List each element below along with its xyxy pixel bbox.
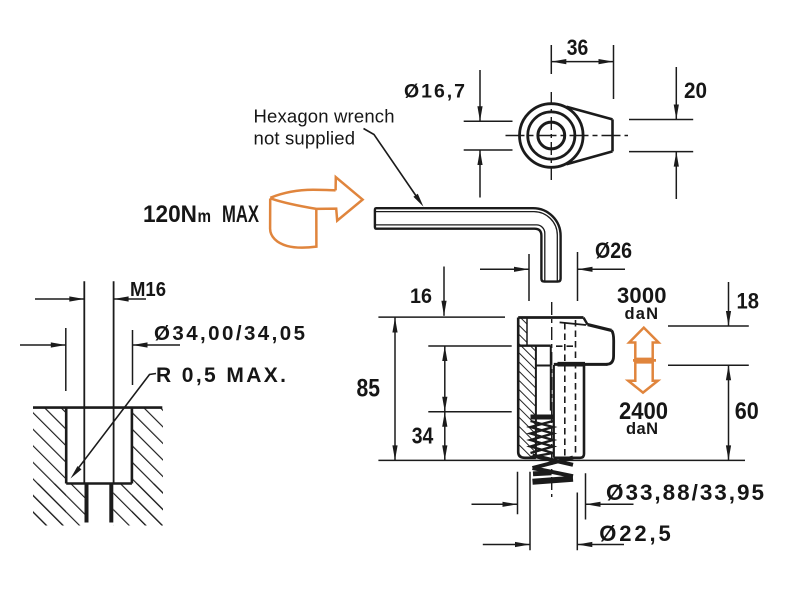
arrow Ø34 left [133, 342, 148, 347]
pocket right wall [550, 346, 552, 411]
dim Ø16.7 extensions [464, 121, 513, 150]
svg-text:M16: M16 [130, 278, 166, 301]
flange top edge [518, 316, 583, 319]
svg-text:Ø26: Ø26 [595, 238, 632, 263]
svg-text:MAX: MAX [222, 201, 259, 228]
svg-text:Ø33,88/33,95: Ø33,88/33,95 [606, 480, 764, 505]
bottom datum line [378, 459, 745, 461]
thread line right below floor [109, 485, 113, 523]
svg-text:m: m [198, 206, 212, 226]
rod right edge with corner [554, 365, 584, 458]
dim 85 line [394, 318, 396, 461]
dim 20 extensions [629, 120, 693, 152]
dim Ø16.7 line [479, 70, 481, 198]
svg-text:85: 85 [357, 375, 381, 403]
cam vertical centerline [550, 92, 552, 180]
force connector bar [633, 359, 656, 362]
spring top coil band [531, 415, 554, 420]
hatch flange band [518, 318, 527, 346]
arrow 60 down [726, 445, 731, 460]
arrow chain up at 346 [442, 346, 447, 361]
svg-text:daN: daN [626, 420, 658, 438]
arrow Ø16.7 up [477, 150, 482, 165]
arrow 34 up at 411.7 [442, 412, 447, 427]
dim Ø34 lines [20, 344, 180, 346]
lower spring coil band partial [533, 473, 552, 474]
hatch below counterbore floor left of hole [33, 484, 85, 526]
arm bottom edge [554, 363, 608, 366]
dim Ø26 extensions [529, 252, 578, 301]
cam horizontal centerline [506, 135, 629, 137]
hatch below counterbore floor right of hole [113, 484, 163, 526]
table top surface line [33, 406, 162, 409]
cam tail bottom edge [567, 151, 613, 164]
arrow R0.5 leader [71, 466, 82, 478]
arrow Ø22.5 left [577, 542, 592, 547]
dim Ø26 line [480, 268, 625, 270]
spring top extension line [428, 411, 511, 413]
body vertical centerline [551, 302, 553, 497]
svg-text:not supplied: not supplied [254, 128, 356, 149]
hidden bore dashed right [575, 320, 577, 456]
dim Ø22.5 line [483, 544, 624, 546]
M16 hole left line [83, 281, 85, 483]
force down arrow 2400 daN [628, 362, 658, 392]
arrow Ø33.88 right [503, 502, 518, 507]
wrench inner line lower [376, 225, 545, 281]
arrow 16 down [441, 301, 446, 316]
svg-text:36: 36 [567, 35, 589, 60]
svg-text:R 0,5 MAX.: R 0,5 MAX. [156, 364, 286, 387]
arrow 36 left [551, 59, 566, 64]
arrow chain down at 411.7 [442, 397, 447, 412]
svg-text:daN: daN [625, 305, 659, 323]
leader R0.5 [76, 374, 157, 472]
arrow Ø26 left [578, 267, 593, 272]
arm right edge with rounded corner [607, 330, 614, 364]
force up arrow 3000 daN [629, 328, 658, 359]
top surface extension line [378, 316, 505, 318]
svg-text:18: 18 [737, 289, 760, 314]
dim 36 line [551, 61, 613, 63]
svg-text:34: 34 [412, 422, 434, 448]
lower spring zigzag a [533, 456, 574, 465]
torque rotation arrow head and inner rim [270, 177, 362, 220]
upper spring zigzag a [531, 421, 554, 457]
rod left edge [553, 365, 555, 458]
wrench outer outline [375, 208, 561, 281]
arm notch line [560, 322, 586, 325]
arrow 34 down at 460.4 [442, 445, 447, 460]
dim Ø33.88 line [472, 503, 634, 505]
wrench inner line upper [376, 212, 558, 281]
hatch wall band [518, 346, 536, 458]
hidden line horizontal [556, 345, 576, 347]
arrow 85 down [392, 445, 397, 460]
arrow Ø26 right [514, 267, 529, 272]
arrow 20 up [674, 152, 679, 167]
dim M16 arrows lines [35, 298, 146, 300]
torque rotation arrow outer rim arc [270, 190, 335, 198]
cam tail right edge [611, 119, 614, 151]
arm bottom thick band [558, 362, 586, 367]
dim 16 line [443, 267, 445, 316]
M16 hole right line [113, 281, 115, 483]
arrow M16 left [114, 296, 129, 301]
flange bottom extension line [428, 345, 511, 347]
svg-text:Ø22,5: Ø22,5 [599, 521, 671, 546]
arrow Ø22.5 right [515, 542, 530, 547]
flange bottom edge [518, 345, 551, 347]
dim 36 right extension [613, 45, 615, 99]
torque rotation arrow band [270, 199, 316, 248]
arrow Ø33.88 left [586, 502, 601, 507]
lower spring zigzag b [533, 458, 574, 469]
flange inner wall line [526, 318, 528, 346]
hatch block left of counterbore [33, 408, 66, 526]
svg-text:Hexagon wrench: Hexagon wrench [254, 105, 395, 126]
svg-text:Ø16,7: Ø16,7 [404, 81, 465, 103]
cam tail top edge [567, 107, 613, 120]
lower spring zigzag c [533, 468, 574, 476]
svg-text:20: 20 [684, 78, 707, 103]
inner circle Ø16.7 bore [538, 122, 565, 149]
outer circle [520, 104, 584, 168]
arrow 60 up [726, 365, 731, 380]
arrow M16 right [69, 296, 84, 301]
arrow 20 down [674, 105, 679, 120]
arrow Ø34 right [51, 342, 66, 347]
arrow Ø16.7 down [477, 106, 482, 121]
dim 36 left extension [550, 45, 552, 74]
hidden bore dashed left [564, 323, 566, 456]
dim Ø34 extensions [66, 328, 133, 391]
arrow 18 down [726, 311, 731, 326]
arm top edge [588, 325, 612, 331]
arrow 85 up [392, 318, 397, 333]
leader line hexagon wrench [364, 129, 416, 196]
counterbore right wall [131, 408, 134, 484]
dim 18/60 vertical line [728, 282, 730, 460]
counterbore left wall [65, 408, 68, 484]
upper spring zigzag b [531, 421, 554, 453]
svg-text:120N: 120N [143, 201, 197, 228]
arrow hexwrench leader [413, 194, 423, 207]
dim 34 chain line [444, 346, 446, 460]
dim 20 line [675, 67, 677, 199]
svg-text:Ø34,00/34,05: Ø34,00/34,05 [154, 322, 305, 345]
bore wall line [535, 346, 537, 458]
arrow 36 right [599, 59, 614, 64]
dim 60 top extension [668, 364, 749, 366]
body left edge [518, 318, 536, 458]
svg-text:60: 60 [735, 398, 759, 425]
dim 18 extension [668, 325, 749, 327]
chamfer top right [584, 318, 588, 325]
svg-text:16: 16 [410, 285, 432, 308]
thread line left below floor [85, 485, 89, 523]
hatch block right of counterbore [132, 408, 163, 526]
lower spring bottom coil [533, 479, 574, 482]
dim Ø33.88 extensions [518, 472, 586, 520]
counterbore floor [66, 482, 132, 485]
middle circle [528, 112, 575, 159]
pocket bottom step [536, 365, 551, 367]
dim Ø22.5 extensions [530, 472, 577, 551]
